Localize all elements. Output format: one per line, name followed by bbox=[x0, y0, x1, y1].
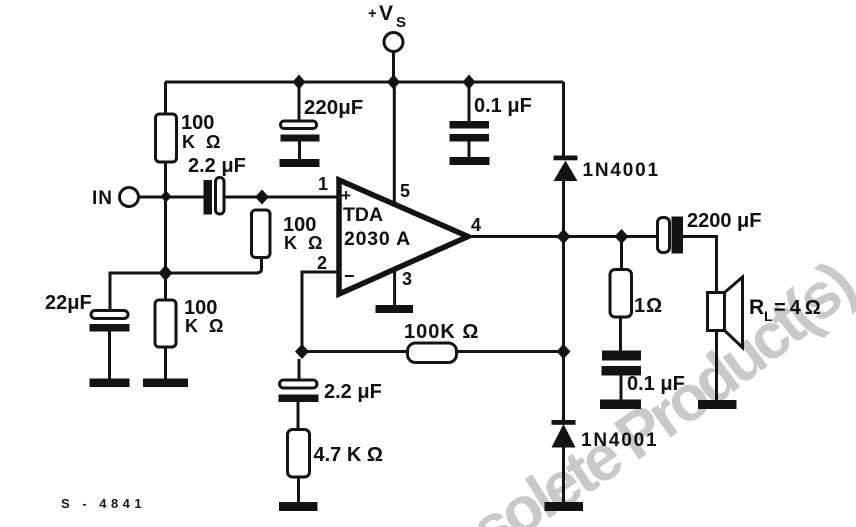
resistor R6 1 ohm bbox=[620, 237, 623, 271]
svg-text:100K Ω: 100K Ω bbox=[404, 321, 479, 343]
svg-text:S: S bbox=[396, 14, 406, 31]
ground speaker bbox=[698, 400, 737, 409]
svg-text:TDA: TDA bbox=[343, 204, 383, 226]
resistor R4 100K feedback bbox=[408, 343, 457, 363]
junction output-D1 bbox=[557, 229, 571, 244]
diode D2 1N4001 bbox=[552, 420, 576, 425]
svg-text:= 4 Ω: = 4 Ω bbox=[774, 297, 821, 319]
wire C1 to pin1 bbox=[224, 196, 339, 199]
svg-text:2200 μF: 2200 μF bbox=[687, 210, 762, 232]
wire pin3 to ground bbox=[393, 268, 396, 306]
junction bias node bbox=[159, 265, 173, 281]
svg-text:S - 4841: S - 4841 bbox=[61, 496, 146, 511]
ground 220uF bbox=[280, 159, 320, 167]
svg-text:+: + bbox=[341, 186, 351, 205]
junction rail-220uF bbox=[293, 75, 306, 90]
wire feedback left bbox=[302, 350, 408, 353]
wire D2 to ground bbox=[562, 448, 565, 503]
resistor R3 100K bbox=[164, 273, 167, 301]
wire top supply rail bbox=[165, 81, 564, 84]
svg-text:2: 2 bbox=[317, 253, 327, 273]
capacitor 0.1uF bbox=[468, 82, 471, 122]
op-amp U1 TDA2030A bbox=[339, 180, 468, 294]
svg-text:100: 100 bbox=[181, 112, 214, 134]
ground pin3 bbox=[376, 305, 414, 313]
speaker RL bbox=[708, 293, 725, 331]
capacitor C7 2200uF bbox=[658, 218, 670, 253]
terminal IN bbox=[120, 188, 139, 207]
wire pin4 output bbox=[468, 235, 657, 238]
svg-text:L: L bbox=[764, 308, 773, 324]
svg-text:5: 5 bbox=[400, 181, 410, 201]
svg-text:−: − bbox=[344, 266, 355, 286]
capacitor 220uF bbox=[298, 82, 301, 121]
wire IN to C1 bbox=[139, 196, 204, 199]
wire R2 to bias line bbox=[256, 258, 262, 274]
watermark Obsolete Product(s) bbox=[459, 248, 856, 527]
wire feedback right bbox=[457, 350, 564, 353]
wire D1 to output node bbox=[562, 181, 565, 421]
ground R5 bbox=[279, 502, 318, 511]
capacitor C6 0.1uF bbox=[619, 317, 622, 351]
svg-text:2030 A: 2030 A bbox=[344, 228, 411, 250]
svg-text:0.1 μF: 0.1 μF bbox=[627, 373, 685, 395]
svg-text:1: 1 bbox=[318, 174, 328, 194]
svg-text:K Ω: K Ω bbox=[185, 316, 226, 336]
junction rail-Vs bbox=[387, 75, 400, 90]
ground 22uF bbox=[90, 379, 130, 388]
junction rail-0.1uF bbox=[463, 75, 476, 90]
svg-text:IN: IN bbox=[92, 188, 113, 209]
svg-text:1N4001: 1N4001 bbox=[583, 160, 660, 181]
svg-text:4.7 K Ω: 4.7 K Ω bbox=[314, 444, 383, 466]
wire left branch vertical bbox=[164, 82, 167, 273]
wire R5 to ground bbox=[297, 477, 300, 502]
wire pin2 bbox=[302, 272, 339, 352]
svg-text:0.1 μF: 0.1 μF bbox=[474, 95, 532, 117]
wire C7 to speaker bbox=[683, 237, 717, 294]
svg-text:V: V bbox=[379, 2, 393, 25]
svg-text:3: 3 bbox=[402, 269, 412, 289]
diode D1 1N4001 bbox=[554, 156, 578, 161]
svg-text:2.2 μF: 2.2 μF bbox=[324, 381, 382, 403]
capacitor C1 2.2uF bbox=[204, 180, 213, 215]
junction output-1ohm bbox=[615, 229, 629, 244]
resistor R2 100K bbox=[252, 210, 271, 258]
node IN-bias dot bbox=[161, 191, 172, 203]
svg-text:1Ω: 1Ω bbox=[634, 295, 663, 317]
ground D2 bbox=[545, 502, 584, 511]
terminal +Vs bbox=[384, 33, 403, 52]
svg-text:220μF: 220μF bbox=[304, 96, 363, 119]
junction feedback node bbox=[295, 344, 309, 359]
junction pin1 node bbox=[255, 190, 269, 205]
ground R3 bbox=[143, 379, 188, 388]
svg-text:2.2 μF: 2.2 μF bbox=[188, 155, 246, 177]
wire right column bbox=[562, 82, 565, 156]
svg-text:R: R bbox=[749, 296, 764, 319]
wire bias node horizontal bbox=[166, 272, 259, 275]
wire R3 to ground bbox=[164, 347, 167, 379]
svg-text:22μF: 22μF bbox=[45, 292, 92, 314]
capacitor 22uF bbox=[91, 311, 128, 319]
wire Vs to rail bbox=[392, 52, 395, 83]
ground 0.1uF bbox=[450, 157, 490, 165]
svg-text:+: + bbox=[368, 5, 377, 22]
wire pin5 bbox=[393, 82, 396, 205]
wire bias to 22uF bbox=[110, 273, 166, 311]
svg-text:K Ω: K Ω bbox=[182, 132, 223, 152]
resistor R1 100K bbox=[156, 114, 177, 162]
resistor R5 4.7K bbox=[297, 402, 300, 430]
svg-text:K Ω: K Ω bbox=[284, 233, 325, 253]
capacitor C5 2.2uF bbox=[298, 359, 301, 380]
svg-text:4: 4 bbox=[471, 215, 481, 235]
wire speaker to ground bbox=[715, 331, 718, 401]
junction output-feedback bbox=[557, 344, 571, 359]
ground C6 bbox=[600, 400, 641, 410]
svg-text:1N4001: 1N4001 bbox=[581, 430, 658, 451]
